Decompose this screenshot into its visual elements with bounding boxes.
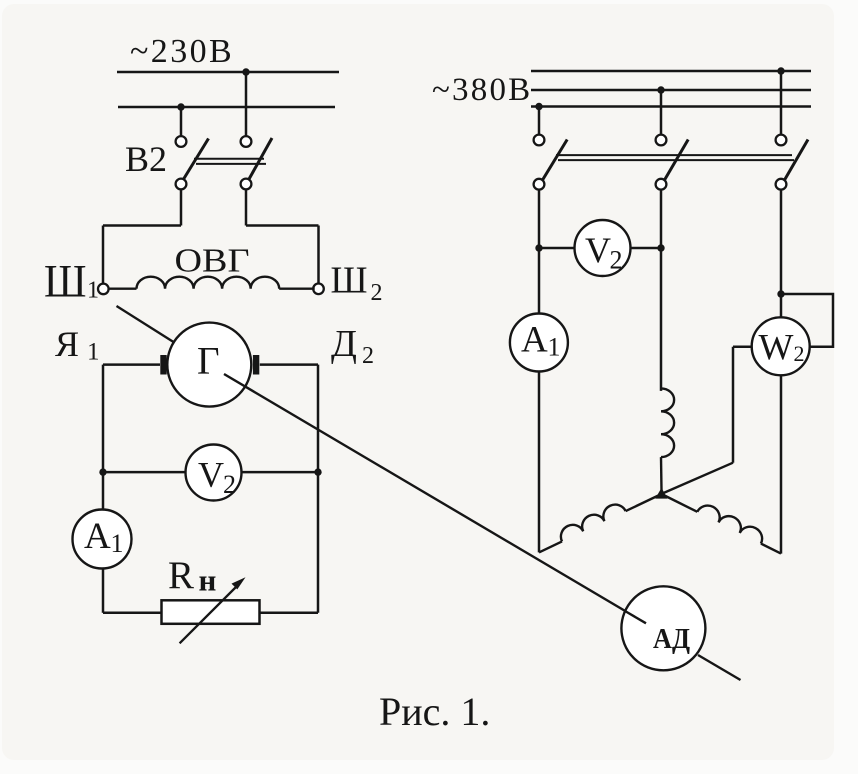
wire brush to D2 [260,363,318,366]
node junction bus3 [535,103,542,110]
wire to voltmeter V2 [103,471,186,474]
svg-text:Д: Д [331,323,357,365]
wire W2 left terminal [733,346,752,349]
svg-text:1: 1 [87,278,99,304]
field winding OVG [109,288,137,290]
wire drop from bus2 to switch B2 pole 1 [180,107,183,137]
motor stator winding phase1 (left slant coil) [534,484,661,553]
node junction on bus 1 [242,68,249,75]
wire drop phase1 [538,107,541,135]
wire down to Sh2 [317,226,320,284]
wire down to Sh1 [102,226,105,284]
svg-text:АД: АД [653,623,690,655]
wire W2 down phase3 [780,375,783,553]
svg-text:2: 2 [362,343,374,369]
node W2 voltage tap [777,290,784,297]
wire from voltmeter V2 [242,471,318,474]
wire phase1 down to A1 [538,190,541,314]
wire drop phase2 [660,90,663,135]
wire switch1 down [180,190,183,226]
node junction on bus 2 [177,103,184,110]
wire 380V bus line 1 [531,70,811,73]
svg-text:~380В: ~380В [432,72,532,108]
wire right side down [317,365,320,613]
wire 380V bus line 2 [531,89,811,92]
svg-text:2: 2 [223,470,236,499]
wire bottom left [103,612,162,615]
svg-text:R: R [168,554,194,597]
three-pole switch [534,135,808,190]
svg-text:Ш: Ш [44,256,87,308]
voltmeter V2 (right) [575,220,631,276]
svg-text:A: A [521,320,548,361]
wire down from W2 left [732,347,735,463]
node right V2 tap [314,468,321,475]
svg-text:A: A [84,516,111,557]
svg-text:Г: Г [197,340,220,383]
svg-text:ОВГ: ОВГ [175,243,250,280]
wire left side down [102,365,105,509]
rheostat Rn [162,600,260,624]
motor stator winding phase3 (right slant coil) [662,484,787,554]
svg-text:2: 2 [371,280,383,306]
svg-text:В2: В2 [125,139,167,179]
svg-text:V: V [585,230,611,270]
svg-text:1: 1 [111,529,124,558]
node V2 tap phase1 [535,244,542,251]
wire A1 down phase1 [538,372,541,553]
ammeter A1 (right) [510,314,568,372]
wire to left [103,224,181,227]
shaft into AD circle [625,611,646,623]
wire from voltmeter V2 right [630,247,661,250]
svg-text:1: 1 [87,339,100,366]
svg-text:Ш: Ш [331,259,368,301]
wire phase2 down to motor coil [660,190,663,391]
wire drop from bus1 to switch B2 pole 2 [245,72,248,137]
wire below A1 [102,568,105,613]
wattmeter W2 voltage loop [781,294,833,347]
shaft line segment 2 [224,374,646,623]
node V2 tap phase2 [657,244,664,251]
wire coil to star point [660,457,663,490]
switch B2 [176,136,272,189]
rheostat arrow [180,577,246,643]
terminal Sh2 [313,284,324,295]
wire 230V bus line 2 [118,106,335,109]
motor stator winding phase2 (vertical coil) [661,388,674,457]
node junction bus1 [777,67,784,74]
shaft line segment 3 [698,655,741,680]
svg-text:V: V [198,455,224,495]
svg-text:Рис. 1.: Рис. 1. [379,689,490,734]
svg-text:2: 2 [610,246,623,275]
svg-text:1: 1 [548,333,561,362]
wire 230V bus line 1 [117,71,339,74]
wire bottom right [260,612,318,615]
motor AD [621,586,705,670]
svg-text:Я: Я [55,324,79,364]
node left V2 tap [99,468,106,475]
svg-text:~230В: ~230В [130,33,234,70]
svg-text:н: н [199,563,217,598]
wire Ya1 to brush [103,363,160,366]
wire slant to star point [664,463,734,493]
generator G [160,323,259,407]
wire 380V bus line 3 [531,105,811,108]
terminal Sh1 [98,284,109,295]
wire drop phase3 [780,71,783,135]
wire to voltmeter V2 right [539,247,575,250]
ammeter A1 (left) [73,510,132,569]
wire phase3 down to W2 [780,190,783,318]
svg-text:2: 2 [794,341,805,366]
shaft line segment 1 [117,306,174,342]
wattmeter W2 [752,317,810,375]
node junction bus2 [657,86,664,93]
wire to right [246,224,319,227]
svg-text:W: W [759,328,794,369]
voltmeter V2 (left) [186,445,242,501]
node star point [655,488,667,499]
wire switch2 down [245,190,248,226]
